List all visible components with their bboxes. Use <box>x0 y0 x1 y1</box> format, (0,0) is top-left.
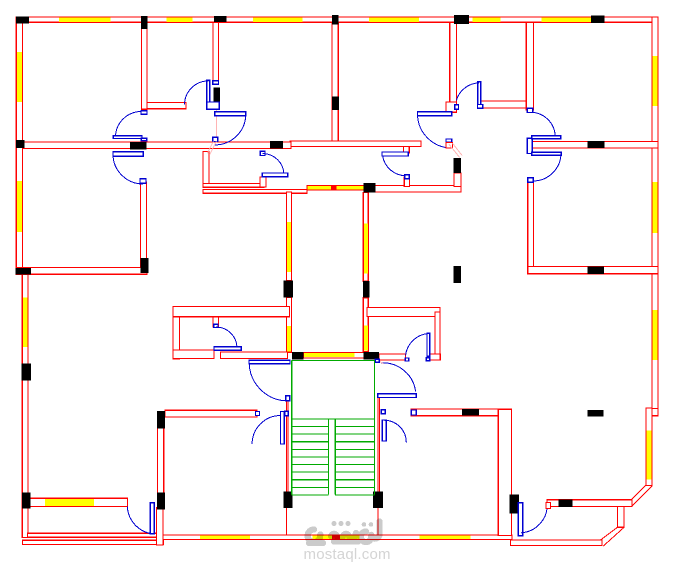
wall top-mid-right vertical <box>450 22 457 102</box>
door D11 arc <box>383 156 407 176</box>
door D8 hinge <box>214 324 218 327</box>
wall hallL horizontal <box>221 352 288 359</box>
door D16 leaf <box>150 503 154 534</box>
column stair top-left c21 <box>292 352 303 360</box>
wall bathR bottom right <box>430 354 441 360</box>
door D2 arc <box>418 114 452 148</box>
window bottom stair <box>313 536 360 540</box>
column top wall x332 <box>332 15 339 25</box>
door D13 hinge <box>375 359 379 362</box>
door D5 leaf <box>113 136 142 139</box>
door D10 leaf <box>262 173 287 177</box>
watermark logo <box>308 522 380 544</box>
door D7a leaf <box>532 136 561 139</box>
door D9 arc <box>406 334 429 356</box>
door D7b leaf <box>532 152 561 155</box>
wall lobby-left stub <box>260 177 266 187</box>
door D16 arc <box>127 507 152 534</box>
window right 1 <box>653 56 658 106</box>
door D15 hinge <box>411 410 416 415</box>
wall bottom-left room <box>28 498 127 506</box>
window top 1 <box>59 17 110 22</box>
wall top-mid horizontal <box>290 141 421 147</box>
door D12 hinge <box>286 396 290 401</box>
door D1 leaf <box>215 112 246 116</box>
wall exterior bottom main <box>160 535 512 540</box>
door D10 arc <box>263 154 285 176</box>
door D4 arc <box>456 83 479 101</box>
wall exterior right step <box>646 408 658 415</box>
wire stair-right red vertical <box>378 398 380 492</box>
column left wall y140 <box>16 140 24 148</box>
svg-text:mostaql.com: mostaql.com <box>304 546 391 563</box>
door D4 hinge2 <box>455 105 459 110</box>
column top wall x454 <box>454 15 469 24</box>
column mid-right wall c11 <box>587 141 604 148</box>
column isolated right c30 <box>588 410 604 417</box>
door D3 arc <box>185 81 209 105</box>
wall closet-right horizontal <box>481 101 527 108</box>
window lobby mid divider <box>331 186 337 190</box>
column shaft-left c17 <box>284 280 293 297</box>
wall lobby-left bottom a <box>203 183 264 187</box>
column interior c10 <box>453 158 461 173</box>
column interior c8 <box>214 88 220 103</box>
door D8 arc <box>216 327 237 348</box>
hinge below wall x213 <box>213 81 219 84</box>
wall exterior left lower <box>22 268 28 538</box>
door D2 open leaf diagonal <box>449 143 462 157</box>
column mid-right c15 <box>587 267 604 275</box>
window top 4 <box>369 17 419 22</box>
wall chamfer bay inner <box>600 527 617 540</box>
window bottom-left room <box>45 499 94 506</box>
wall lobby-left bottom b <box>203 189 307 193</box>
door D15 leaf <box>382 420 386 441</box>
door D17 leaf <box>518 503 522 536</box>
wall bay horizontal <box>547 500 632 507</box>
column left wall c20 <box>22 364 31 381</box>
window left 3 <box>23 298 28 348</box>
wall bottom-left inner <box>28 533 157 537</box>
wall shaft-right <box>363 192 368 281</box>
wall stair top window base <box>304 353 365 358</box>
door D14 hinge <box>256 412 260 416</box>
wall living top <box>411 409 498 416</box>
wall lobby mid window base <box>307 186 364 191</box>
door D14 arc <box>252 416 281 445</box>
wall living right <box>498 409 511 535</box>
door D8 leaf <box>214 347 241 351</box>
door D13 open leaf diagonal <box>379 361 384 364</box>
wall bedroom2 bottom horizontal <box>16 268 147 275</box>
door D13 arc <box>381 363 415 392</box>
wall exterior right upper <box>652 17 658 416</box>
wall mid-right top horizontal <box>532 142 658 148</box>
door D6 arc <box>113 154 143 184</box>
door D10 hinge <box>260 151 265 155</box>
wall chamfer bay outer <box>603 527 624 546</box>
wall bathR top <box>367 308 440 317</box>
wall bedroom2 right vertical <box>141 182 147 269</box>
door D13 leaf <box>378 394 416 398</box>
wall lobby-left vertical <box>203 152 209 188</box>
wall mid-right bottom horizontal <box>528 266 658 273</box>
column top wall x214 <box>214 16 226 22</box>
door D12 arc <box>249 364 288 401</box>
window lobby mid b <box>337 186 364 190</box>
wall bedroom1 right vertical <box>141 22 147 109</box>
wall exterior top <box>17 17 658 22</box>
window shaft-right lower <box>364 326 368 351</box>
column bedroom2 c13 <box>140 258 148 273</box>
door D7a hinge <box>527 108 533 112</box>
column living c27 <box>462 409 479 416</box>
column stair bottom-left c23 <box>283 492 292 509</box>
door D17 frame stub <box>546 503 550 509</box>
wall lobby-right stub <box>404 177 409 187</box>
door D1 hinge <box>213 137 218 141</box>
wall bathL top <box>173 307 290 317</box>
column shaft-right c18 <box>363 281 370 298</box>
wall mid-right left vertical <box>528 178 534 270</box>
wall bathL left <box>173 317 179 359</box>
staircase <box>292 360 375 495</box>
column kitchen c26 <box>157 493 165 510</box>
door D5 arc <box>116 112 142 138</box>
column top wall x141 <box>141 16 147 29</box>
door D7a arc <box>530 112 555 136</box>
door D1 arc <box>215 114 246 145</box>
wall below column top <box>213 22 219 81</box>
window shaft-left upper <box>287 222 291 272</box>
window bottom living <box>419 536 470 540</box>
window top 6 <box>542 17 592 22</box>
wire faint vertical left <box>216 102 218 139</box>
wall exterior left upper <box>16 17 22 274</box>
door D7b hinge <box>528 178 534 182</box>
door D6 hinge <box>140 179 146 183</box>
column stair top-right c22 <box>364 352 379 360</box>
wall bathR right <box>435 312 440 356</box>
column bay c29 <box>558 499 572 507</box>
door D2 leaf <box>418 112 452 116</box>
wall bottom porch right <box>511 540 603 546</box>
door D6 leaf <box>113 152 143 156</box>
door D15 hinge2 <box>381 410 385 414</box>
wall below column c10 <box>454 173 461 187</box>
door D1 open leaf diagonal <box>207 141 216 154</box>
window left 1 <box>17 52 22 102</box>
door D14 frame stub <box>285 411 289 416</box>
wall exterior right lower <box>646 408 652 486</box>
wall lobby-right bottom <box>364 185 461 192</box>
wall chamfer right outer <box>632 486 652 506</box>
column left wall c31 <box>22 493 31 509</box>
window shaft-left lower <box>287 326 291 351</box>
door D7 post <box>527 138 532 153</box>
wall bathL bottom <box>173 350 214 358</box>
wall bathL stub <box>213 317 218 327</box>
wall bedroom2 top horizontal <box>22 142 291 148</box>
wall top-mid divider vertical <box>332 22 338 141</box>
window right 4 <box>647 431 652 480</box>
window lobby mid a <box>307 186 331 190</box>
column top-left corner <box>16 16 29 23</box>
window top 2 <box>167 17 193 22</box>
door D11 hinge <box>405 175 410 179</box>
door D17 arc <box>521 505 547 533</box>
door D3 hinge <box>207 102 220 109</box>
door D12 leaf <box>249 360 290 363</box>
window right 2 <box>653 182 658 233</box>
column stair bottom-right c24 <box>373 492 383 509</box>
column top wall x591 <box>591 16 604 23</box>
wall kitchen top <box>165 410 257 417</box>
window top 5 <box>473 17 501 22</box>
door D4 leaf <box>478 82 481 107</box>
door D9 hinge <box>426 358 429 361</box>
wall shaft-left lower <box>287 297 292 352</box>
column bedroom2 c12 <box>270 141 283 148</box>
door D14 leaf <box>281 412 285 445</box>
window left 2 <box>17 181 22 232</box>
column shaft-right top c16 <box>363 183 375 192</box>
window right 3 <box>653 310 658 360</box>
wall door D11 tab <box>404 147 410 153</box>
wall closet-left horizontal <box>147 102 186 108</box>
window shaft-right upper <box>364 223 368 273</box>
column porch right c28 <box>509 495 519 514</box>
door D15 arc <box>384 420 406 442</box>
wall shaft-right lower <box>363 298 368 352</box>
wire stair-right to bottom <box>377 508 379 535</box>
door D3 leaf <box>207 80 210 104</box>
door D5 tab <box>141 138 147 140</box>
wire stair-left to bottom <box>286 508 288 535</box>
door D11 leaf <box>382 152 408 156</box>
wire stair-left red vertical <box>286 398 288 492</box>
door D9 leaf <box>427 333 430 356</box>
wall chamfer right inner <box>629 485 646 502</box>
wall bathR bottom left <box>379 354 405 360</box>
window bottom kitchen <box>200 536 250 540</box>
door D7b arc <box>533 153 561 181</box>
window bottom stair divider <box>332 536 340 539</box>
door D2 hinge <box>446 139 452 142</box>
column left wall c14 <box>16 268 31 275</box>
wall bedroomTR left vertical <box>526 22 533 110</box>
column bedroom junction c32 <box>130 142 146 150</box>
wall top-mid-right notch <box>446 102 456 112</box>
wall bottom-left outer <box>23 540 164 544</box>
wall porch step left <box>156 508 163 545</box>
door D9 hinge2 <box>405 358 408 361</box>
column isolated c19 <box>453 266 461 283</box>
wall kitchen left vertical <box>157 428 163 509</box>
wall shaft-left <box>287 192 292 281</box>
window stair top <box>304 353 355 357</box>
column kitchen c25 <box>157 411 165 428</box>
door D2 frame stub <box>446 142 452 148</box>
door D5 hinge <box>141 111 147 114</box>
wall bay vertical <box>617 507 624 528</box>
column interior c9 <box>332 97 339 110</box>
door D4 hinge <box>478 105 483 109</box>
window top 3 <box>253 17 303 22</box>
